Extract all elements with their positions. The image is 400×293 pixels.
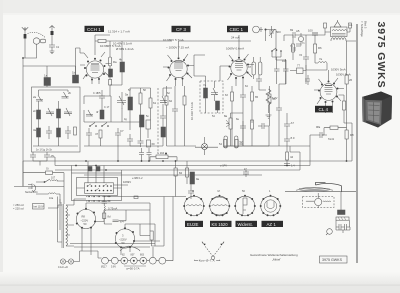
svg-text:R8: R8 bbox=[350, 133, 354, 137]
top band soft edge bbox=[0, 13, 400, 15]
svg-text:47: 47 bbox=[95, 132, 99, 136]
wire CL4 right bbox=[339, 95, 345, 123]
svg-text:807: 807 bbox=[131, 254, 136, 257]
fuse Si bbox=[46, 167, 53, 175]
resistor Ra column bbox=[109, 57, 118, 66]
resistor 60b bbox=[235, 140, 243, 148]
resistor 52a rounded bbox=[224, 136, 227, 148]
dial drive shaft bbox=[317, 193, 319, 208]
capacitor C3b bbox=[65, 126, 71, 139]
svg-text:A7: A7 bbox=[291, 121, 295, 125]
capacitor C6 bbox=[86, 128, 92, 141]
pinout KS1520 circle bbox=[209, 189, 231, 216]
mains wires bbox=[23, 161, 64, 204]
box component 5c bbox=[146, 120, 151, 129]
svg-text:3975 GWKS: 3975 GWKS bbox=[322, 258, 343, 262]
left scan edge bbox=[0, 0, 3, 293]
heater tube H6 bbox=[149, 257, 156, 264]
main bus 3 bbox=[55, 169, 300, 171]
variable capacitor C4 (oscillator) bbox=[117, 92, 126, 109]
svg-text:84: 84 bbox=[179, 171, 183, 175]
svg-text:98a: 98a bbox=[316, 126, 321, 129]
rectifier tube V1 bbox=[76, 208, 96, 229]
heater tube H4 bbox=[130, 254, 137, 265]
cap below shield box right bbox=[44, 152, 54, 161]
bias cap small bbox=[102, 202, 108, 204]
switch wafer solid box bbox=[85, 183, 114, 194]
mains plug Netz bbox=[25, 184, 38, 195]
tube CF3 bbox=[168, 57, 190, 80]
cap C15 bbox=[276, 102, 282, 116]
svg-text:Si: Si bbox=[46, 167, 49, 171]
cap C77a bbox=[274, 63, 280, 77]
wires to output bbox=[306, 35, 327, 70]
legend arrows X bbox=[202, 242, 224, 260]
svg-text:„Mittel“: „Mittel“ bbox=[272, 258, 281, 262]
heater lamp L2 bbox=[111, 257, 118, 268]
wire antenna to coils bbox=[23, 66, 76, 87]
trimmer T2 bbox=[62, 91, 72, 98]
svg-text:A1: A1 bbox=[349, 23, 353, 27]
svg-text:~220V: ~220V bbox=[81, 219, 89, 223]
resistor R11 right bbox=[268, 94, 276, 103]
capacitor C1 (earth) bbox=[49, 35, 60, 54]
tube CBC1 pin leads bbox=[224, 41, 254, 86]
svg-text:66: 66 bbox=[273, 97, 277, 101]
detector wires bbox=[220, 66, 252, 146]
mains coil filter 107 bbox=[51, 177, 58, 182]
capacitor C8 bbox=[127, 134, 133, 146]
components 5d 5e above switch bbox=[88, 167, 100, 172]
bottom wires osc bbox=[84, 138, 140, 161]
right column wires bbox=[310, 123, 347, 161]
svg-text:KS 1520: KS 1520 bbox=[212, 222, 229, 227]
svg-text:C7: C7 bbox=[120, 129, 124, 133]
detector cap C12 bbox=[240, 89, 246, 103]
caps bottom pair bbox=[305, 75, 310, 85]
svg-text:Blatt 3: Blatt 3 bbox=[364, 21, 368, 29]
osc wires bbox=[110, 41, 122, 96]
heater chain wire bbox=[82, 251, 102, 258]
cap C23 bbox=[188, 184, 194, 199]
svg-text:C 17: C 17 bbox=[104, 106, 110, 109]
svg-text:CF 3: CF 3 bbox=[176, 27, 186, 32]
pinout Widerst circle bbox=[234, 189, 256, 216]
svg-text:AZ 1: AZ 1 bbox=[267, 222, 277, 227]
svg-text:EU2E: EU2E bbox=[187, 222, 199, 227]
switch feed wires bbox=[72, 161, 129, 188]
decoupling cap C20 bbox=[284, 132, 295, 147]
antenna lead-in blob bbox=[24, 34, 27, 39]
resistor R16 right bbox=[330, 126, 338, 129]
heater tube H5 bbox=[140, 254, 147, 265]
antenna A bbox=[22, 27, 28, 34]
CF3 cathode wires bbox=[167, 86, 197, 146]
svg-text:⌀ 1PV: ⌀ 1PV bbox=[220, 165, 227, 168]
wire antenna down-lead bbox=[23, 39, 25, 187]
IF coil 5a bbox=[125, 93, 133, 111]
coil 1a bbox=[44, 74, 51, 86]
label box CF 3 bbox=[172, 26, 191, 32]
transformer riser wires bbox=[58, 197, 156, 248]
choke coil bbox=[190, 172, 200, 184]
svg-text:Ø 989 1.2mA: Ø 989 1.2mA bbox=[116, 47, 134, 51]
cap below shield box left bbox=[30, 152, 36, 161]
volume pot 8a bbox=[224, 114, 232, 129]
switch contacts row1 bbox=[87, 185, 112, 187]
CBC1 top feed bbox=[238, 35, 240, 41]
svg-text:1M: 1M bbox=[282, 59, 286, 63]
svg-text:1030V 5mA: 1030V 5mA bbox=[336, 73, 351, 77]
svg-text:CBC 1: CBC 1 bbox=[230, 27, 244, 32]
IFT2 trimmer bbox=[211, 88, 218, 95]
cap 1.4 right column bbox=[284, 164, 295, 168]
heater chain connecting bbox=[108, 197, 173, 261]
capacitor C5 bbox=[97, 90, 105, 104]
band filter shield box bbox=[32, 87, 81, 152]
svg-text:0.75mA: 0.75mA bbox=[108, 207, 117, 211]
trimmer T1 bbox=[33, 95, 43, 101]
capacitor C11 bbox=[172, 104, 178, 116]
svg-text:4f: 4f bbox=[96, 110, 99, 114]
dial drive pulley bbox=[315, 198, 322, 205]
switch lower contacts bbox=[88, 196, 109, 202]
node junction bbox=[22, 57, 24, 59]
switch wire loop outer bbox=[72, 173, 122, 201]
resistor R3 bbox=[95, 130, 102, 138]
dial cord right spring bbox=[323, 201, 331, 202]
heater tube H7 bbox=[159, 257, 166, 264]
coil 4a column bbox=[109, 69, 113, 77]
transformer terminals bbox=[324, 23, 352, 28]
IF coil 5b bbox=[140, 115, 145, 127]
earth terminal E bbox=[50, 26, 55, 36]
tube CCH1 bbox=[84, 58, 106, 81]
ground bus bbox=[14, 186, 64, 188]
svg-text:10.980V 5.7mA: 10.980V 5.7mA bbox=[163, 38, 184, 42]
mains coil filter 104 bbox=[49, 193, 56, 200]
svg-text:8.0: 8.0 bbox=[291, 136, 295, 140]
pinout AZ1 circle bbox=[260, 189, 282, 216]
resistor 84 bbox=[174, 168, 183, 176]
svg-text:C 17: C 17 bbox=[93, 92, 99, 95]
svg-text:7a: 7a bbox=[319, 57, 323, 61]
trimmer 4e bbox=[86, 110, 93, 116]
IFT2 coil a bbox=[203, 83, 208, 98]
svg-text:R8: R8 bbox=[82, 215, 86, 219]
IF coil 5g bbox=[161, 127, 166, 137]
svg-text:1030V 5mA: 1030V 5mA bbox=[331, 68, 346, 72]
transformer connecting wires bbox=[313, 28, 356, 41]
main bus 1 bbox=[23, 160, 352, 162]
switch wire loop inner bbox=[77, 178, 118, 196]
capacitor C10 bbox=[160, 111, 166, 123]
coil 4f bbox=[96, 110, 104, 119]
switch contacts row2 bbox=[87, 190, 112, 192]
bias cap 8.4 bbox=[113, 220, 125, 224]
svg-text:1069V 0.6mA: 1069V 0.6mA bbox=[226, 47, 244, 51]
svg-text:3a: 3a bbox=[33, 128, 37, 132]
wire top right of CBC1 bbox=[266, 30, 277, 42]
trimmer 5f bbox=[160, 96, 167, 103]
box 77 bbox=[297, 64, 304, 74]
capacitor C3a bbox=[46, 126, 52, 139]
wire resistor 84 bbox=[175, 161, 177, 197]
IFT2 dashed box bbox=[200, 81, 223, 113]
phone jack circle bbox=[253, 26, 263, 33]
svg-text:500: 500 bbox=[276, 30, 281, 34]
resistor 9a column bbox=[186, 168, 194, 177]
dial lamp stem bbox=[340, 192, 342, 210]
tone switch contacts bbox=[271, 48, 282, 57]
dial lamp holder bbox=[338, 210, 346, 215]
svg-text:7. Schaltfolge: 7. Schaltfolge bbox=[360, 21, 364, 37]
resistor R5 bbox=[149, 98, 157, 108]
svg-text:107: 107 bbox=[51, 177, 56, 180]
tube CBC1 bbox=[229, 57, 250, 79]
svg-text:2b: 2b bbox=[68, 91, 72, 95]
junction dot top bbox=[265, 29, 267, 31]
zigzag resistor 6.3V bbox=[266, 89, 278, 118]
speaker funnel symbol bbox=[334, 20, 341, 27]
svg-text:Ø117: Ø117 bbox=[101, 266, 107, 269]
svg-text:26: 26 bbox=[349, 78, 353, 82]
svg-text:5.6V: 5.6V bbox=[111, 266, 116, 269]
variable capacitor C2b bbox=[64, 108, 72, 116]
wire right column bbox=[346, 41, 348, 123]
cap pair above bus bbox=[139, 148, 152, 161]
coil 7a small bbox=[318, 57, 327, 63]
pinout EU2E circle bbox=[183, 189, 205, 216]
part number box bbox=[320, 256, 348, 263]
cap C18 small bbox=[308, 29, 318, 36]
coil 3a bbox=[33, 128, 41, 137]
wires right of detector bbox=[270, 30, 287, 147]
label box KS1520 bbox=[210, 221, 232, 227]
svg-text:R6: R6 bbox=[318, 46, 322, 50]
coil 2c bbox=[33, 109, 41, 119]
svg-text:2a: 2a bbox=[33, 95, 37, 99]
svg-text:7a: 7a bbox=[203, 83, 207, 87]
switch dashed contact rows below bbox=[86, 197, 112, 202]
svg-text:M: M bbox=[192, 189, 194, 193]
decoupling cap C19 column bbox=[284, 118, 294, 132]
resistor R4 bbox=[139, 93, 142, 104]
svg-text:60: 60 bbox=[152, 142, 156, 146]
capacitor C9 bbox=[138, 138, 144, 147]
rectifier wiring harness bbox=[82, 203, 160, 255]
grid top cap wire bbox=[76, 48, 85, 83]
svg-text:69: 69 bbox=[290, 28, 294, 32]
svg-text:62: 62 bbox=[169, 99, 173, 103]
IF wires bbox=[130, 88, 151, 138]
box 4c column bbox=[109, 80, 112, 86]
svg-text:≈ 250 od: ≈ 250 od bbox=[13, 203, 24, 207]
svg-text:61: 61 bbox=[153, 101, 157, 105]
svg-text:Tonöl: Tonöl bbox=[328, 138, 334, 141]
cap 47 on bus bbox=[243, 170, 249, 177]
tube CL4 bbox=[318, 81, 339, 104]
svg-text:≈ 220 od: ≈ 220 od bbox=[13, 207, 24, 211]
anode top components left of transformer bbox=[296, 29, 304, 46]
wire from plug bbox=[23, 44, 37, 58]
switch contact links bbox=[88, 184, 108, 191]
svg-text:Widerst.: Widerst. bbox=[238, 222, 253, 227]
coil 3b bbox=[57, 128, 61, 137]
svg-text:bei 110V: bei 110V bbox=[34, 205, 44, 209]
wire R12 bbox=[292, 35, 294, 60]
grid resistor R12 bbox=[292, 44, 295, 52]
svg-text:Gezeichnete Wellenschalterstel: Gezeichnete Wellenschalterstellung bbox=[250, 253, 298, 257]
dial assembly baseline bbox=[285, 191, 356, 193]
transformer tap wires bbox=[48, 205, 74, 246]
bias network wires bbox=[104, 196, 164, 246]
detector lower wires bbox=[224, 113, 269, 146]
resistor R15 bbox=[286, 152, 294, 160]
coil 2d bbox=[57, 109, 61, 118]
IF right wires bbox=[130, 88, 172, 146]
svg-text:67: 67 bbox=[248, 65, 252, 69]
cap C68b bbox=[256, 75, 262, 85]
rectifier tube V2 bbox=[115, 227, 135, 248]
svg-text:8a: 8a bbox=[224, 114, 228, 118]
label box AZ1 bbox=[262, 221, 284, 227]
resistor R7 bbox=[183, 96, 186, 105]
oscillator coil 4b bbox=[119, 58, 125, 73]
cathode resistor R13 bbox=[343, 101, 346, 110]
paper bottom fade bbox=[0, 272, 400, 293]
junction dots on buses bbox=[75, 160, 347, 171]
label box CCH 1 bbox=[85, 26, 105, 32]
right vertical bus to CL4 bbox=[224, 123, 352, 170]
output transformer box bbox=[331, 23, 353, 37]
label box CBC 1 bbox=[227, 26, 248, 32]
wires tone section bbox=[254, 57, 306, 90]
oscillator section box wires bbox=[84, 96, 140, 122]
lamp cap network bbox=[336, 220, 350, 233]
inline resistor G194 bbox=[150, 151, 177, 161]
filter wires bbox=[140, 224, 155, 246]
resistor 54b bbox=[219, 140, 227, 148]
pilot lamp pair bbox=[58, 251, 82, 269]
output transformer secondary coil bbox=[331, 38, 346, 40]
underline heater label bbox=[124, 265, 146, 267]
antenna plug P1 bbox=[28, 32, 46, 44]
top wire CBC1 to CL4 bbox=[284, 35, 313, 41]
IFT1 shield dashed line bbox=[157, 88, 159, 152]
svg-text:1e 1f 1g 1h 1k: 1e 1f 1g 1h 1k bbox=[36, 149, 53, 152]
svg-text:10.43V 7.1mA: 10.43V 7.1mA bbox=[190, 102, 194, 120]
filter resistor Urdox bbox=[150, 231, 153, 240]
svg-text:44: 44 bbox=[290, 155, 294, 159]
dial drive dashed box bbox=[303, 197, 335, 208]
tube CF3 pin leads bbox=[163, 41, 194, 86]
svg-text:1b: 1b bbox=[72, 71, 76, 75]
lamp resistor hatched bbox=[336, 217, 349, 220]
svg-text:803: 803 bbox=[140, 254, 145, 257]
switch contacts row (osc) bbox=[89, 123, 109, 127]
svg-text:10.49V 5.1mA: 10.49V 5.1mA bbox=[113, 42, 132, 46]
resistor 52b rounded bbox=[235, 136, 243, 148]
wire 9a bbox=[186, 161, 188, 184]
resistor R1 bbox=[74, 127, 77, 135]
cap C14 horizontal bbox=[258, 123, 269, 129]
dial cord left spring bbox=[306, 201, 314, 202]
voltage selector box bei 110V bbox=[33, 204, 45, 210]
svg-text:G 194: G 194 bbox=[157, 151, 165, 155]
CF3 top wire bbox=[179, 41, 252, 66]
bias resistor 8d bbox=[103, 213, 111, 219]
svg-text:24 mA: 24 mA bbox=[231, 36, 240, 40]
svg-text:~220V: ~220V bbox=[119, 238, 127, 242]
svg-text:1.4: 1.4 bbox=[291, 164, 295, 168]
bias coil squiggle bbox=[104, 206, 117, 212]
resistor R6b vertical bbox=[314, 44, 323, 53]
variable capacitor C2a bbox=[46, 108, 54, 116]
heater tube H3 bbox=[121, 254, 128, 265]
svg-text:Netzanschl.: Netzanschl. bbox=[25, 191, 38, 194]
capacitor C7 bbox=[115, 128, 124, 141]
heater return segment bbox=[140, 196, 186, 198]
tube CL4 pin leads bbox=[314, 70, 344, 113]
svg-text:Ra: Ra bbox=[113, 60, 117, 64]
resistor 67 rounded bbox=[248, 62, 255, 75]
tube CCH1 pin leads bbox=[80, 41, 111, 84]
svg-text:M: M bbox=[218, 189, 220, 193]
main bus 2 bbox=[55, 165, 310, 167]
voltage selector text bbox=[13, 203, 24, 211]
svg-text:8.4: 8.4 bbox=[120, 220, 124, 224]
power transformer winding bbox=[62, 204, 68, 248]
bus segment y147 bbox=[195, 146, 218, 148]
component 6d box bbox=[147, 140, 156, 147]
resistor R14 right column bbox=[345, 75, 353, 84]
label box EU2E bbox=[185, 221, 203, 227]
svg-text:9a: 9a bbox=[196, 177, 200, 181]
right margin divider bbox=[356, 24, 358, 263]
scale lamp circle bbox=[326, 229, 332, 235]
svg-text:11.314 + 1.7 mA: 11.314 + 1.7 mA bbox=[108, 30, 130, 34]
svg-text:A5: A5 bbox=[296, 29, 300, 33]
svg-text:1069V: 1069V bbox=[123, 180, 131, 184]
svg-text:100: 100 bbox=[308, 29, 313, 33]
series resistor in top bus bbox=[98, 39, 106, 42]
svg-text:ω=50 0.7A: ω=50 0.7A bbox=[126, 267, 140, 271]
IFT2 coil b bbox=[216, 101, 220, 110]
coupling cap C16 top bbox=[288, 28, 301, 38]
cap 1M bbox=[282, 59, 289, 77]
dial pointer lens bbox=[296, 187, 333, 192]
main bus 4 bbox=[84, 174, 262, 176]
speaker photo bbox=[362, 92, 392, 128]
resistor 68 rounded bbox=[259, 62, 262, 75]
svg-text:0.1A L+D: 0.1A L+D bbox=[58, 266, 68, 269]
coil 1b bbox=[72, 71, 79, 84]
indicator diode circle bbox=[202, 137, 208, 155]
svg-text:5a: 5a bbox=[125, 93, 129, 97]
resistor R17 right small bbox=[345, 130, 354, 139]
variable cap C500 bbox=[269, 26, 281, 38]
label box Widerst bbox=[236, 221, 258, 227]
label box CL 4 bbox=[315, 106, 333, 113]
internal wires band filter bbox=[33, 90, 78, 146]
cap C13 bbox=[240, 121, 246, 133]
small cap row left bbox=[291, 44, 301, 50]
top bus from CCH1 bbox=[95, 35, 172, 41]
svg-text:65: 65 bbox=[255, 95, 259, 99]
mains switch bbox=[44, 181, 46, 183]
dial arm bbox=[316, 183, 342, 192]
